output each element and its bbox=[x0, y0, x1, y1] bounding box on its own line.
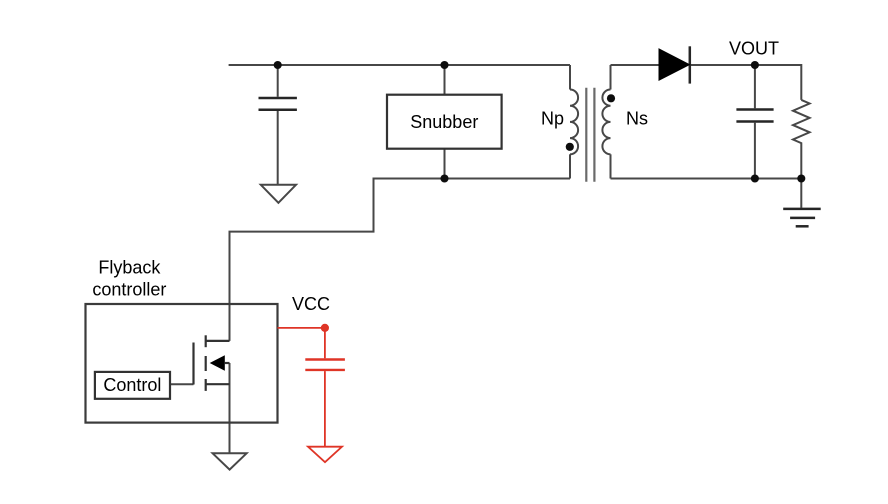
svg-text:VCC: VCC bbox=[292, 294, 330, 314]
svg-text:Snubber: Snubber bbox=[410, 112, 478, 132]
svg-text:Np: Np bbox=[541, 109, 564, 129]
svg-text:VOUT: VOUT bbox=[729, 38, 779, 58]
svg-text:Flyback: Flyback bbox=[98, 258, 161, 278]
svg-text:Ns: Ns bbox=[626, 109, 648, 129]
svg-text:Control: Control bbox=[103, 375, 161, 395]
svg-text:controller: controller bbox=[92, 280, 166, 300]
